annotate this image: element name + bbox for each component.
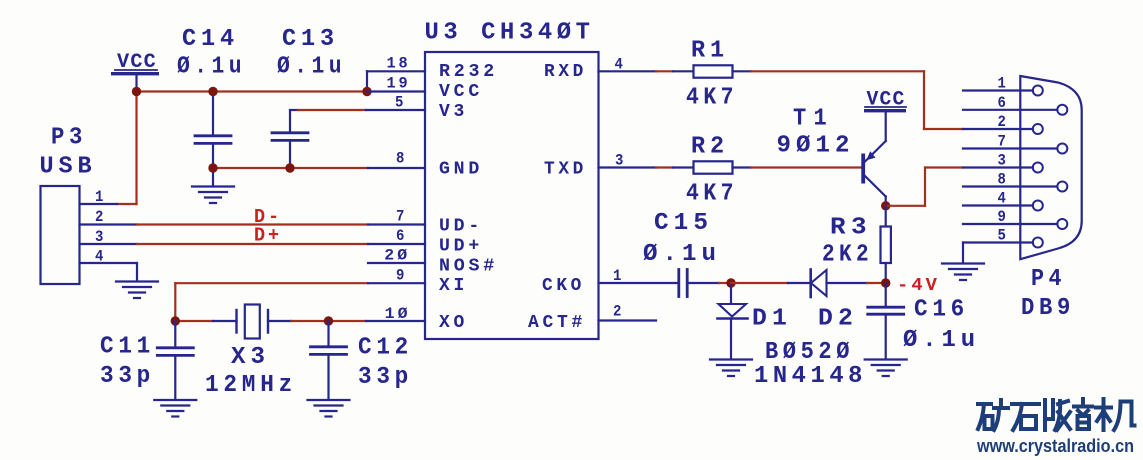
svg-text:Ø.1u: Ø.1u xyxy=(277,54,346,81)
svg-text:7: 7 xyxy=(396,208,407,226)
wire V3 row (C13 top to U3 pin5) xyxy=(290,109,366,111)
svg-text:Ø.1u: Ø.1u xyxy=(177,54,246,81)
svg-text:Ø.1u: Ø.1u xyxy=(643,241,721,268)
watermark logo "Crystal Radio" CJK brand glyphs (drawn strokes) xyxy=(978,399,1135,430)
node XTAL right junction xyxy=(324,316,333,325)
svg-text:V3: V3 xyxy=(439,102,468,122)
svg-text:33p: 33p xyxy=(100,363,155,390)
pin 9 XI xyxy=(368,267,468,297)
svg-text:R232: R232 xyxy=(439,62,498,82)
node -4V junction xyxy=(881,278,890,287)
capacitor C16 xyxy=(868,283,980,359)
svg-text:C16: C16 xyxy=(914,297,969,324)
svg-text:2: 2 xyxy=(613,303,624,321)
svg-text:9Ø12: 9Ø12 xyxy=(777,133,855,160)
svg-text:33p: 33p xyxy=(358,364,413,391)
glyph shou xyxy=(1045,400,1070,430)
svg-text:CKO: CKO xyxy=(542,276,585,296)
wire C15 to D1 node xyxy=(719,282,731,284)
diode D1 B0520 xyxy=(718,283,855,366)
ground (C16) xyxy=(865,360,907,377)
capacitor C12 xyxy=(311,321,414,400)
ground (below C14) xyxy=(192,187,234,204)
svg-text:U3 CH34ØT: U3 CH34ØT xyxy=(425,20,595,47)
svg-text:P4: P4 xyxy=(1031,266,1066,293)
svg-text:GND: GND xyxy=(439,160,483,180)
power symbol VCC (top left) xyxy=(111,51,159,92)
transistor T1 9012 xyxy=(777,106,886,207)
pin 6 (DB9) xyxy=(963,94,1067,115)
ground (USB pin4) xyxy=(116,282,158,299)
pin 8 GND xyxy=(368,150,483,180)
pin 10 XO xyxy=(366,305,468,333)
svg-text:XO: XO xyxy=(439,313,468,333)
svg-text:R3: R3 xyxy=(830,215,872,242)
wire XTAL row left xyxy=(175,320,213,322)
svg-text:19: 19 xyxy=(387,75,411,93)
svg-text:XI: XI xyxy=(439,276,468,296)
node XTAL left junction xyxy=(171,316,180,325)
pin 6 UD+ xyxy=(368,227,483,257)
svg-text:www.crystalradio.cn: www.crystalradio.cn xyxy=(976,436,1134,456)
svg-text:8: 8 xyxy=(396,150,407,168)
resistor R3 xyxy=(822,206,891,283)
svg-text:-4V: -4V xyxy=(897,275,940,296)
node D1 junction xyxy=(726,278,735,287)
svg-text:UD-: UD- xyxy=(439,217,483,237)
svg-text:2: 2 xyxy=(95,208,106,226)
svg-text:C15: C15 xyxy=(654,210,713,237)
wire VCC drop to USB pin1 xyxy=(135,92,137,205)
wire XTAL row right xyxy=(268,320,291,322)
pin 1 CKO xyxy=(542,267,677,296)
pin 1 (USB) xyxy=(80,188,118,206)
pin 5 V3 xyxy=(366,93,468,122)
wire USB pin1 to VCC drop xyxy=(117,203,137,205)
svg-text:2Ø: 2Ø xyxy=(384,247,410,265)
wire TXD to T1 base xyxy=(751,166,861,168)
node T1 collector junction xyxy=(881,201,890,210)
wire VCC rail xyxy=(137,90,368,92)
node C14 bottom junction xyxy=(208,163,217,172)
pin 5 (DB9) xyxy=(963,227,1043,263)
wire GND row C14 to U3 pin8 xyxy=(213,167,368,169)
pin 3 (DB9) xyxy=(963,152,1043,173)
ground (D1) xyxy=(710,360,752,377)
svg-text:DB9: DB9 xyxy=(1021,295,1075,322)
pin 9 (DB9) xyxy=(963,208,1067,229)
wire D2 to -4V node xyxy=(867,282,886,284)
wire collector to DB9 pin3 xyxy=(886,168,963,206)
svg-text:C13: C13 xyxy=(282,26,339,53)
wire XI net xyxy=(175,283,368,321)
svg-text:4K7: 4K7 xyxy=(686,85,738,112)
ground (C12) xyxy=(308,400,350,417)
svg-text:RXD: RXD xyxy=(544,62,587,82)
svg-text:9: 9 xyxy=(396,267,407,285)
pin 7 (DB9) xyxy=(963,133,1067,154)
ground (DB9 pin5) xyxy=(942,264,984,281)
pin 7 UD- xyxy=(368,208,483,237)
power symbol VCC (above T1) xyxy=(864,89,906,142)
svg-text:BØ52Ø: BØ52Ø xyxy=(765,339,854,366)
svg-text:TXD: TXD xyxy=(544,160,587,180)
svg-text:4K7: 4K7 xyxy=(686,181,738,208)
svg-text:1N4148: 1N4148 xyxy=(754,363,867,390)
svg-text:VCC: VCC xyxy=(439,82,483,102)
pin 20 NOS# xyxy=(368,247,498,277)
svg-text:D1: D1 xyxy=(752,306,792,333)
pin 2 (USB) xyxy=(80,208,138,226)
node C14 top junction xyxy=(208,87,217,96)
svg-text:6: 6 xyxy=(396,227,407,245)
pin 3 TXD xyxy=(544,152,656,180)
glyph ji xyxy=(1096,399,1135,430)
capacitor C13 xyxy=(272,26,346,168)
svg-text:P3: P3 xyxy=(51,125,87,152)
op-amp U3 box CH340T xyxy=(425,20,599,340)
pin 19 VCC xyxy=(367,75,483,103)
svg-text:12MHz: 12MHz xyxy=(205,372,297,399)
svg-text:C11: C11 xyxy=(100,334,155,361)
svg-text:C14: C14 xyxy=(182,26,239,53)
svg-text:USB: USB xyxy=(40,154,97,181)
svg-text:ACT#: ACT# xyxy=(528,313,586,333)
svg-text:NOS#: NOS# xyxy=(439,257,498,277)
svg-text:Ø.1u: Ø.1u xyxy=(903,327,980,354)
svg-text:D+: D+ xyxy=(254,225,282,247)
pin 4 RXD xyxy=(544,55,656,82)
resistor R1 xyxy=(656,38,751,112)
diode D2 1N4148 xyxy=(754,270,867,391)
node VCC junction xyxy=(132,87,141,96)
glyph kuang xyxy=(978,400,1008,430)
pin 8 (DB9) xyxy=(963,171,1067,192)
pin 4 (DB9) xyxy=(963,190,1043,211)
svg-text:5: 5 xyxy=(395,93,406,111)
wire RXD to DB9 pin2 xyxy=(751,71,963,129)
resistor R2 xyxy=(656,134,751,208)
svg-text:R1: R1 xyxy=(691,38,729,65)
capacitor C15 xyxy=(643,210,721,297)
svg-text:C12: C12 xyxy=(358,335,413,362)
connector P3 USB xyxy=(40,125,97,285)
svg-text:R2: R2 xyxy=(691,134,729,161)
svg-text:2K2: 2K2 xyxy=(822,242,873,269)
pin 3 (USB) xyxy=(80,228,138,246)
pin 2 (DB9) xyxy=(963,113,1043,134)
ground (C11) xyxy=(154,400,196,417)
svg-text:18: 18 xyxy=(387,54,411,72)
crystal X3 xyxy=(205,305,297,400)
pin 18 R232 xyxy=(367,54,498,91)
glyph shi xyxy=(1012,404,1039,430)
glyph yin xyxy=(1074,399,1092,429)
svg-text:VCC: VCC xyxy=(867,89,906,112)
capacitor C14 xyxy=(177,26,246,186)
wire D1 node to D2 xyxy=(731,282,788,284)
wire D+ net xyxy=(137,243,368,245)
capacitor C11 xyxy=(100,321,193,400)
pin 1 (DB9) xyxy=(963,75,1043,96)
wire D- net xyxy=(137,223,368,225)
pin 2 ACT# xyxy=(528,303,656,334)
pin 4 (USB) xyxy=(80,248,138,282)
svg-text:UD+: UD+ xyxy=(439,237,483,257)
svg-text:X3: X3 xyxy=(231,344,270,371)
svg-text:T1: T1 xyxy=(793,106,834,133)
connector P4 DB9 xyxy=(1020,76,1081,322)
node C13 bottom junction xyxy=(285,163,294,172)
svg-text:D2: D2 xyxy=(818,306,858,333)
node pin18/19 junction xyxy=(362,87,371,96)
